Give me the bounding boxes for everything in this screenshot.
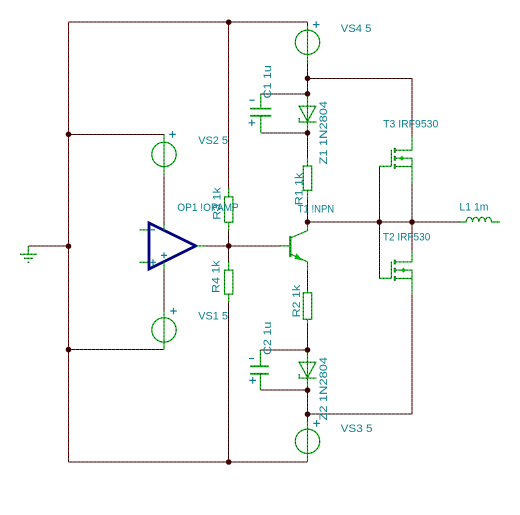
- op-amp input stubs: [140, 230, 205, 262]
- svg-text:R2 1k: R2 1k: [291, 284, 303, 317]
- svg-text:R1 1k: R1 1k: [294, 172, 306, 205]
- svg-text:T2 IRF530: T2 IRF530: [383, 232, 430, 244]
- T3 gate stub: [379, 165, 391, 167]
- node E junction (T2 source): [305, 411, 311, 417]
- svg-text:VS3 5: VS3 5: [341, 423, 373, 435]
- zener Z1 through lead: [307, 94, 309, 133]
- wire T2 drain up: [411, 222, 413, 251]
- node top-R3 junction: [226, 19, 232, 25]
- node left-rail VS1 junction: [66, 347, 72, 353]
- op-amp non-inverting input mark: [150, 259, 156, 265]
- wire R1 to T1 collector: [307, 199, 309, 222]
- wire R3 to R4: [228, 231, 230, 262]
- wire VS2 feed: [69, 133, 165, 135]
- node D1 junction (C2 top): [305, 347, 311, 353]
- svg-text:OP1 !OPAMP: OP1 !OPAMP: [177, 202, 239, 214]
- zener diode Z1: [299, 106, 316, 122]
- resistor R1 body: [303, 166, 311, 190]
- capacitor C1: [250, 94, 271, 133]
- node B2 junction (C1 top): [305, 91, 311, 97]
- node left-rail VS2 junction: [66, 132, 72, 138]
- svg-text:VS2 5: VS2 5: [198, 135, 228, 147]
- svg-text:Z1 1N2804: Z1 1N2804: [318, 101, 330, 165]
- ground symbol: [20, 246, 37, 262]
- op-amp supply pin stubs: [163, 224, 165, 270]
- resistor R4 leads: [228, 262, 230, 303]
- node B3 junction (C1 bottom): [305, 130, 311, 136]
- zener Z2 through lead: [307, 350, 309, 390]
- VS4 polarity +: [313, 21, 320, 28]
- wire C2 bottom link: [260, 389, 307, 391]
- transistor T3 IRF9530 symbol: [391, 136, 412, 183]
- voltage source VS1 circle: [152, 318, 176, 342]
- wire Z1 to R1: [307, 133, 309, 157]
- svg-text:Z2 1N2804: Z2 1N2804: [318, 357, 330, 421]
- node C source junction: [409, 219, 415, 225]
- wire R4 to bottom rail: [228, 303, 230, 463]
- op-amp inverting input mark: [150, 229, 155, 231]
- resistor R1 leads: [307, 157, 309, 199]
- wire C2 top link: [260, 349, 307, 351]
- svg-text:C2 1u: C2 1u: [262, 322, 274, 355]
- VS1 polarity +: [170, 308, 177, 315]
- wire T2 gate drop: [378, 222, 380, 278]
- wire node C horizontal to L1: [308, 221, 460, 223]
- svg-text:C1 1u: C1 1u: [262, 65, 274, 98]
- resistor R4 body: [225, 270, 233, 294]
- voltage source VS4 circle: [295, 30, 319, 54]
- wire T1 emitter to R2: [307, 270, 309, 290]
- wire top rail to R3: [228, 22, 230, 188]
- node D2 junction (C2 bottom): [305, 387, 311, 393]
- voltage source VS2 leads: [163, 134, 165, 176]
- wire node B to T3 drain: [308, 78, 413, 136]
- VS3 polarity +: [313, 420, 320, 427]
- C2 polarity +: [249, 377, 256, 384]
- C1 polarity +: [249, 120, 256, 127]
- wire T2 source down to node E: [308, 294, 413, 414]
- T2 gate stub: [379, 277, 391, 279]
- wire T3 gate riser: [378, 166, 380, 222]
- wire VS4 bottom to node B: [307, 63, 309, 94]
- C1 polarity -: [249, 99, 254, 101]
- wire top rail: [69, 21, 308, 23]
- resistor R3 body: [225, 197, 233, 222]
- wire left rail: [68, 22, 70, 462]
- svg-text:VS4 5: VS4 5: [341, 23, 372, 35]
- capacitor C2: [250, 350, 268, 390]
- wire Z2 to VS3: [307, 390, 309, 420]
- svg-text:T1 !NPN: T1 !NPN: [298, 203, 335, 215]
- voltage source VS3 circle: [295, 429, 319, 453]
- op-amp positive supply mark: [161, 252, 167, 258]
- svg-text:L1 1m: L1 1m: [459, 202, 488, 214]
- transistor T2 IRF530 symbol: [391, 251, 412, 294]
- inductor L1: [460, 217, 500, 222]
- svg-text:T3 IRF9530: T3 IRF9530: [383, 119, 438, 131]
- node C junction (T1 collector): [305, 219, 311, 225]
- resistor R2 leads: [307, 290, 309, 322]
- wire VS1 to left rail: [69, 349, 165, 351]
- voltage source VS4 leads: [307, 25, 309, 63]
- wire ground link: [28, 245, 68, 247]
- node C gate junction: [377, 219, 383, 225]
- resistor R3 leads: [228, 188, 230, 230]
- voltage source VS1 leads: [163, 311, 165, 350]
- op-amp U1 triangle: [149, 223, 196, 269]
- wire bottom rail: [69, 461, 308, 463]
- wire C1 top link: [261, 93, 308, 95]
- C2 polarity -: [249, 358, 254, 360]
- node left-rail ground junction: [66, 243, 72, 249]
- svg-text:VS1 5: VS1 5: [198, 310, 228, 322]
- voltage source VS2 circle: [152, 142, 176, 166]
- wire VS2 to op-amp top supply: [163, 176, 165, 224]
- wire C1 bottom link: [261, 132, 308, 134]
- svg-text:R4 1k: R4 1k: [210, 260, 222, 293]
- wire R2 to node D: [307, 322, 309, 350]
- VS2 polarity +: [169, 131, 176, 138]
- wire op-amp output to T1 base: [205, 245, 280, 247]
- resistor R2 body: [303, 293, 311, 320]
- node bottom-R4 junction: [226, 459, 232, 465]
- wire T3 source down: [411, 183, 413, 222]
- wire VS4 top stub: [307, 22, 309, 25]
- node op-amp output junction: [226, 243, 232, 249]
- zener diode Z2: [299, 362, 316, 378]
- transistor T1 !NPN symbol: [280, 222, 308, 270]
- wire op-amp bottom supply to VS1: [163, 270, 165, 311]
- voltage source VS3 leads: [307, 421, 309, 462]
- node B1 junction (T3 drain branch): [305, 76, 311, 82]
